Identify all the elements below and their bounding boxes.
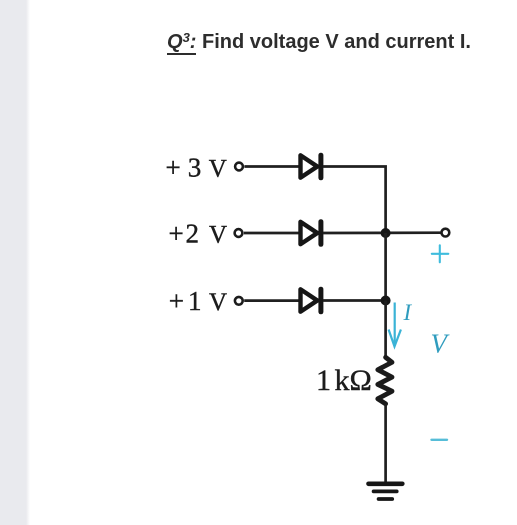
ground bbox=[369, 484, 403, 499]
wire +2V terminal to D2 anode bbox=[244, 232, 300, 235]
wire resistor bottom to ground bbox=[384, 404, 387, 482]
node +3V input terminal bbox=[235, 163, 243, 171]
svg-text:+2V: +2V bbox=[169, 219, 228, 249]
svg-text:1kΩ: 1kΩ bbox=[316, 364, 372, 397]
wire node B down to node C bbox=[384, 233, 387, 301]
resistor R1 bbox=[378, 357, 392, 404]
diode D2 bbox=[301, 222, 321, 245]
polarity + mark bbox=[432, 245, 449, 262]
junction node C bbox=[381, 296, 391, 306]
svg-text:+1V: +1V bbox=[169, 286, 227, 316]
svg-text:+3V: +3V bbox=[166, 153, 227, 183]
polarity - mark bbox=[432, 439, 448, 441]
node output terminal bbox=[442, 229, 450, 237]
junction node B bbox=[381, 228, 391, 238]
wire D3 cathode to node C bbox=[323, 299, 386, 302]
node +2V input terminal bbox=[235, 229, 243, 237]
diode D3 bbox=[301, 289, 321, 312]
diode D1 bbox=[301, 155, 321, 178]
wire D2 cathode through node B to output terminal bbox=[323, 231, 441, 234]
wire D1 cathode to top-right corner and down to node B bbox=[323, 167, 386, 234]
wire +1V terminal to D3 anode bbox=[244, 299, 300, 302]
node +1V input terminal bbox=[235, 297, 243, 305]
wire +3V terminal to D1 anode bbox=[244, 165, 300, 168]
wire node C to resistor top bbox=[384, 301, 387, 358]
svg-text:V: V bbox=[431, 329, 451, 359]
svg-text:I: I bbox=[403, 300, 413, 325]
current arrow I bbox=[389, 303, 401, 347]
